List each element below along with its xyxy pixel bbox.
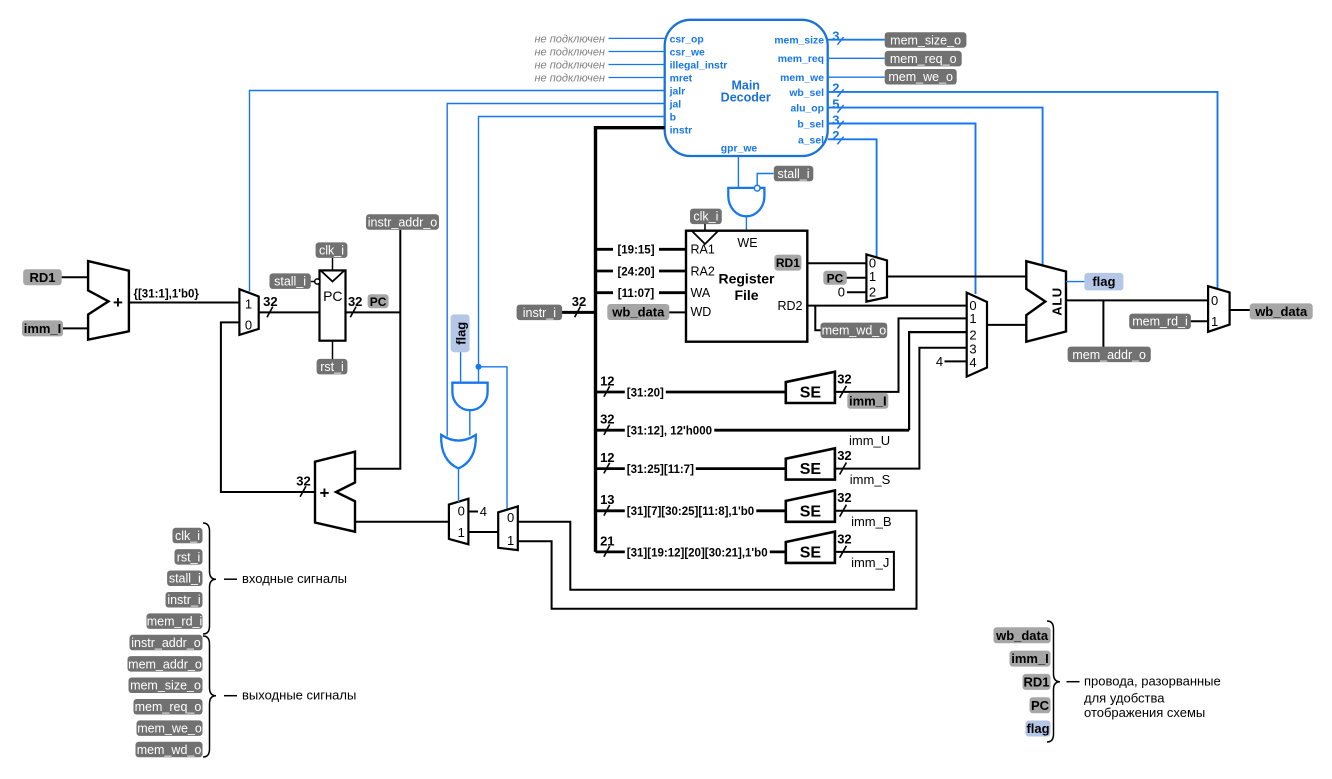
wire adder A2 out to mux M1 (221, 322, 315, 492)
svg-text:clk_i: clk_i (175, 529, 200, 543)
svg-text:не подключен: не подключен (534, 59, 605, 71)
adder A1 jalr target (88, 261, 129, 340)
svg-text:jalr: jalr (669, 87, 686, 98)
svg-text:clk_i: clk_i (319, 244, 344, 258)
legend broken nets dash (1067, 681, 1080, 683)
svg-text:1: 1 (969, 311, 976, 326)
bus width 21 imm_J slice (600, 533, 614, 556)
svg-text:1: 1 (245, 296, 252, 311)
legend input brace (203, 523, 216, 634)
wire constant 4 to b-mux (945, 360, 967, 362)
port mem_wd_o (821, 323, 888, 339)
svg-text:1: 1 (1211, 314, 1218, 329)
mux M3 imm_B/imm_J select (498, 506, 518, 550)
svg-text:4: 4 (936, 354, 943, 369)
port mem_size_o (885, 32, 967, 48)
svg-text:jal: jal (669, 100, 682, 111)
bus width 12 imm_I slice (600, 373, 614, 396)
svg-text:mem_req_o: mem_req_o (890, 52, 957, 66)
wire SE1 out imm_I to b-mux (835, 318, 967, 392)
svg-text:RD1: RD1 (776, 256, 800, 270)
svg-text:mem_addr_o: mem_addr_o (1072, 348, 1146, 362)
svg-text:mem_rd_i: mem_rd_i (1132, 315, 1188, 329)
svg-text:3: 3 (832, 112, 839, 127)
svg-text:wb_data: wb_data (611, 305, 665, 320)
svg-text:WE: WE (737, 236, 757, 250)
net label imm_I at SE1 out (847, 393, 888, 409)
wire mret stub (609, 77, 665, 79)
svg-text:32: 32 (600, 412, 614, 427)
port rst_i at PC (317, 359, 348, 375)
svg-text:stall_i: stall_i (274, 275, 306, 289)
net label RD1 at register-file output (774, 255, 801, 271)
wire b to imm mux select (479, 367, 508, 509)
svg-text:PC: PC (323, 288, 342, 304)
register-file title (718, 270, 775, 303)
wire PC out (346, 311, 401, 313)
svg-text:1: 1 (869, 269, 876, 284)
label slice 31:20 (625, 386, 666, 400)
svg-text:провода, разорванные: провода, разорванные (1084, 674, 1221, 689)
label slice imm_B bits (625, 504, 757, 518)
svg-text:WD: WD (691, 305, 712, 319)
svg-text:instr_addr_o: instr_addr_o (131, 636, 201, 650)
wire a-mux out to ALU (887, 276, 1026, 278)
svg-text:{[31:1],1'b0}: {[31:1],1'b0} (134, 289, 200, 301)
svg-text:illegal_instr: illegal_instr (670, 61, 728, 72)
svg-text:SE: SE (800, 461, 822, 478)
svg-text:RA2: RA2 (691, 264, 715, 278)
wire csr_we stub (609, 51, 665, 53)
sign-extend SE4 imm_J (786, 532, 835, 563)
svg-text:mem_we_o: mem_we_o (888, 70, 953, 84)
wire b-mux out to ALU (987, 324, 1026, 326)
svg-text:b: b (670, 113, 676, 124)
wire illegal_instr stub (609, 64, 665, 66)
mux M2 PC step select (449, 499, 469, 545)
decoder U1 Main Decoder (665, 20, 828, 156)
svg-text:2: 2 (832, 81, 839, 96)
port clk_i at register-file (690, 209, 722, 225)
mux M3 port digits (507, 510, 514, 548)
svg-text:0: 0 (245, 317, 252, 332)
bus width 32 adder A2 out (296, 473, 310, 496)
svg-text:RD1: RD1 (29, 270, 55, 285)
svg-text:instr_addr_o: instr_addr_o (368, 215, 438, 229)
svg-text:imm_S: imm_S (850, 472, 891, 487)
svg-text:PC: PC (370, 295, 387, 309)
net label wb_data at WD (607, 304, 669, 320)
mux M1 port digits (245, 296, 252, 332)
svg-text:4: 4 (969, 355, 976, 370)
svg-text:32: 32 (837, 531, 851, 546)
port mem_we_o (885, 69, 957, 85)
net label wb_data out (1250, 303, 1313, 319)
alu U3 (1026, 261, 1066, 342)
svg-text:не подключен: не подключен (534, 33, 605, 45)
svg-text:wb_data: wb_data (995, 628, 1049, 643)
svg-text:12: 12 (600, 373, 614, 388)
port mem_rd_i (1129, 314, 1191, 330)
wire or-gate G3 out to mux M2 select (458, 468, 460, 502)
svg-text:flag: flag (1026, 721, 1049, 736)
legend output signals labels (130, 635, 203, 651)
svg-text:alu_op: alu_op (791, 104, 825, 115)
mux M5 port digits (969, 298, 976, 370)
wire adder A1 out jalr target (129, 302, 240, 304)
bus width 2 wb_sel (832, 81, 843, 97)
net label flag at ALU (1084, 273, 1123, 291)
wire b_sel net (828, 124, 976, 295)
register PC clock chevron (321, 270, 345, 281)
svg-text:mret: mret (670, 74, 693, 85)
adder A2 PC plus offset (315, 452, 355, 532)
svg-text:[31:25][11:7]: [31:25][11:7] (627, 464, 694, 476)
svg-text:32: 32 (572, 294, 586, 309)
wire instr slice 31:20 to SE1 (596, 391, 786, 394)
bus width 3 b_sel (832, 112, 843, 128)
legend broken nets brace (1047, 621, 1060, 742)
svg-text:0: 0 (1211, 293, 1218, 308)
wire instr_i to bus (562, 311, 595, 314)
mux M6 port digits (1211, 293, 1218, 329)
svg-text:32: 32 (837, 448, 851, 463)
register-file U2 (686, 231, 807, 342)
wire b net (479, 117, 665, 383)
svg-text:mem_we_o: mem_we_o (137, 722, 202, 736)
mux M5 b_sel (967, 293, 987, 377)
svg-text:WA: WA (691, 286, 711, 300)
svg-text:File: File (734, 287, 758, 303)
svg-text:2: 2 (869, 285, 876, 300)
mux M2 port digits (458, 504, 465, 541)
svg-text:+: + (320, 483, 330, 502)
svg-text:stall_i: stall_i (778, 167, 810, 181)
svg-text:mem_req_o: mem_req_o (135, 700, 202, 714)
svg-text:ALU: ALU (1049, 287, 1064, 316)
wire instr slice imm_B to SE3 (596, 509, 786, 512)
wire mem_we net (828, 76, 885, 78)
register-file clock chevron (692, 231, 719, 244)
sign-extend SE2 imm_S (786, 448, 835, 479)
port stall_i at PC (270, 273, 311, 289)
svg-text:mem_size_o: mem_size_o (130, 679, 201, 693)
wire clk_i to register-file (704, 224, 706, 231)
svg-text:imm_J: imm_J (851, 555, 889, 570)
wire RD1 to adder A1 (62, 276, 88, 278)
svg-text:mem_req: mem_req (778, 54, 824, 65)
mux M4 a_sel (866, 254, 887, 301)
net label PC at PC output (368, 294, 389, 309)
wire and-gate G2 out (469, 410, 471, 435)
svg-text:a_sel: a_sel (798, 135, 824, 146)
label slice 31:25 11:7 (625, 462, 696, 476)
svg-text:0: 0 (869, 255, 876, 270)
svg-text:13: 13 (600, 492, 614, 507)
net label imm_I at adder A1 (22, 320, 63, 336)
wire instr slice imm_J to SE4 (596, 551, 786, 554)
svg-text:mem_size: mem_size (774, 36, 824, 47)
wire alu_op net (828, 108, 1043, 267)
inverter bubble on stall_i input (754, 185, 760, 191)
legend input signals labels (173, 528, 203, 544)
port clk_i at PC (316, 242, 348, 258)
wire RD2 to b-mux (807, 305, 966, 307)
svg-text:stall_i: stall_i (169, 572, 201, 586)
svg-text:32: 32 (296, 473, 310, 488)
port instr_i (517, 305, 563, 321)
svg-text:32: 32 (263, 294, 277, 309)
wire rst_i to PC (332, 341, 334, 359)
wire mux M2 out to adder A2 (355, 521, 449, 523)
bus width 32 imm_J out (837, 531, 851, 558)
svg-text:b_sel: b_sel (797, 120, 824, 131)
svg-text:gpr_we: gpr_we (721, 144, 758, 155)
svg-text:[31][7][30:25][11:8],1'b0: [31][7][30:25][11:8],1'b0 (627, 506, 754, 518)
svg-text:mem_we: mem_we (780, 73, 824, 84)
wire pc-mux out to PC (259, 311, 320, 313)
svg-text:wb_data: wb_data (1254, 304, 1308, 319)
wire SE2 out imm_S to b-mux (835, 348, 966, 469)
decoder U1 output pin labels (721, 36, 824, 155)
wire mem_rd_i to wb-mux (1191, 320, 1208, 322)
svg-text:mem_addr_o: mem_addr_o (128, 657, 202, 671)
svg-text:imm_I: imm_I (849, 393, 887, 408)
wire mem_wd_o tap (815, 306, 820, 331)
svg-text:imm_B: imm_B (851, 514, 891, 529)
wire gpr_we net (737, 156, 739, 189)
svg-text:clk_i: clk_i (693, 210, 718, 224)
mux M4 port digits (869, 255, 876, 299)
svg-text:PC: PC (1031, 698, 1050, 713)
svg-text:Decoder: Decoder (721, 91, 771, 105)
svg-text:mem_rd_i: mem_rd_i (147, 615, 203, 629)
sign-extend SE1 imm_I (786, 372, 835, 403)
wire RD1 to a-mux (807, 262, 866, 264)
svg-text:выходные сигналы: выходные сигналы (242, 688, 356, 703)
svg-text:32: 32 (348, 294, 362, 309)
wire wb_data to WD (669, 311, 686, 313)
svg-text:0: 0 (838, 284, 845, 299)
and-gate G1 gpr_we AND not stall_i (728, 188, 764, 216)
svg-text:для удобства: для удобства (1084, 691, 1165, 706)
bus width 2 a_sel (832, 128, 843, 144)
svg-text:instr: instr (670, 126, 693, 137)
sign-extend SE3 imm_B (786, 491, 835, 522)
wire constant 0 to a-mux (847, 291, 866, 293)
inverter bubble stall_i at PC (315, 279, 320, 284)
svg-text:2: 2 (832, 128, 839, 143)
svg-text:32: 32 (837, 371, 851, 386)
register PC (320, 270, 346, 340)
wire alu flag out (1066, 281, 1084, 283)
register-file pin labels (691, 236, 803, 319)
svg-text:rst_i: rst_i (177, 550, 201, 564)
wire SE3 out imm_B to mux M3 (518, 511, 917, 609)
svg-text:instr_i: instr_i (167, 593, 200, 607)
svg-text:входные сигналы: входные сигналы (242, 571, 347, 586)
wire SE4 out imm_J to mux M3 (518, 522, 894, 590)
or-gate G3 pc source (441, 435, 476, 469)
svg-text:instr_i: instr_i (523, 306, 556, 320)
legend text broken wires (1084, 674, 1221, 721)
svg-text:[11:07]: [11:07] (618, 288, 655, 300)
wire PC to a-mux (847, 277, 867, 279)
svg-text:mem_wd_o: mem_wd_o (822, 324, 887, 338)
bus width 32 PC out (348, 294, 362, 317)
wire jal net (447, 104, 665, 437)
wire instr slice 31:25 11:7 to SE2 (596, 467, 786, 470)
wire instr_addr_o and PC feedback to adder (355, 230, 400, 469)
svg-text:flag: flag (453, 322, 468, 345)
wire instr slice 19:15 to RA1 (596, 248, 687, 251)
legend input dash (224, 578, 237, 580)
mux M6 wb_sel (1208, 286, 1230, 332)
svg-text:0: 0 (507, 510, 514, 525)
wire clk_i to PC (332, 258, 334, 271)
bus width 5 alu_op (832, 96, 843, 112)
legend output brace (203, 636, 216, 757)
wire alu result (1066, 299, 1208, 301)
svg-text:SE: SE (800, 503, 822, 520)
wire mem_req net (828, 57, 885, 59)
label slice 31:12 12'h000 (625, 424, 715, 438)
svg-text:4: 4 (480, 504, 487, 519)
bus width 32 instr_i (572, 294, 586, 317)
wire mem_addr_o tap (1102, 300, 1104, 347)
svg-text:1: 1 (458, 525, 465, 540)
node b branch junction (476, 364, 482, 370)
svg-text:не подключен: не подключен (534, 46, 605, 58)
svg-text:imm_I: imm_I (24, 321, 62, 336)
bus instr from decoder (596, 128, 665, 552)
wire stall_i to PC (311, 281, 315, 283)
svg-text:не подключен: не подключен (534, 72, 605, 84)
legend output dash (224, 695, 237, 697)
label slice 24:20 (613, 265, 659, 279)
svg-text:3: 3 (832, 29, 839, 44)
label slice imm_J bits (625, 546, 770, 560)
port mem_addr_o (1068, 347, 1151, 363)
svg-text:csr_we: csr_we (670, 48, 705, 59)
wire imm_I to adder A1 (63, 327, 88, 329)
svg-text:21: 21 (600, 533, 614, 548)
wire instr slice 11:07 to WA (596, 291, 687, 294)
label slice 11:07 (613, 286, 659, 300)
svg-text:RA1: RA1 (691, 243, 715, 257)
port mem_req_o (885, 51, 962, 67)
net label RD1 at adder A1 (23, 269, 62, 285)
svg-text:Register: Register (718, 270, 775, 286)
port stall_i near decoder (774, 166, 814, 182)
svg-text:wb_sel: wb_sel (788, 88, 824, 99)
svg-text:[31:20]: [31:20] (627, 387, 664, 399)
svg-text:0: 0 (458, 504, 465, 519)
bus width 3 mem_size (832, 29, 843, 45)
svg-text:[31:12], 12'h000: [31:12], 12'h000 (627, 426, 712, 438)
svg-text:csr_op: csr_op (670, 34, 704, 45)
svg-text:[24:20]: [24:20] (617, 266, 654, 278)
bus width 32 imm_B out (837, 490, 851, 517)
svg-text:mem_wd_o: mem_wd_o (137, 743, 202, 757)
net label PC at a-mux (823, 271, 846, 286)
decoder U1 title (721, 78, 771, 104)
svg-text:+: + (113, 293, 123, 312)
svg-text:[31][19:12][20][30:21],1'b0: [31][19:12][20][30:21],1'b0 (627, 547, 768, 559)
svg-text:32: 32 (837, 490, 851, 505)
wire csr_op stub (609, 37, 665, 39)
wire mem_size net (828, 39, 885, 41)
svg-text:[19:15]: [19:15] (617, 245, 654, 257)
legend broken nets labels (994, 627, 1051, 643)
mux M1 next PC select (239, 289, 258, 335)
wire WE gate output (745, 216, 747, 230)
bus width 32 PC in (263, 294, 277, 317)
svg-text:5: 5 (832, 96, 839, 111)
wire instr slice 24:20 to RA2 (596, 270, 687, 273)
port instr_addr_o (366, 214, 439, 230)
svg-text:1: 1 (507, 533, 514, 548)
svg-text:mem_size_o: mem_size_o (890, 33, 961, 47)
svg-text:SE: SE (800, 544, 822, 561)
bus width 32 imm_S out (837, 448, 851, 475)
wire instr slice 31:12 imm_U (596, 429, 910, 432)
net label flag rotated (451, 314, 470, 352)
bus width 32 imm_I out (837, 371, 851, 398)
svg-text:PC: PC (827, 271, 844, 285)
svg-text:imm_I: imm_I (1011, 651, 1049, 666)
wire constant 4 to mux M2 (468, 511, 478, 513)
wire stall_i to WE gate (757, 174, 774, 186)
label slice 19:15 (613, 243, 659, 257)
wire a_sel net (828, 139, 877, 257)
bus width 13 imm_B slice (600, 492, 614, 515)
svg-text:SE: SE (800, 385, 822, 402)
svg-text:2: 2 (969, 328, 976, 343)
svg-text:RD1: RD1 (1023, 675, 1049, 690)
wire mux M3 out to mux M2 (468, 531, 498, 533)
svg-text:flag: flag (1092, 274, 1115, 289)
svg-text:rst_i: rst_i (320, 360, 344, 374)
bus width 32 imm_U slice (600, 412, 614, 435)
wire flag to and-gate G2 (460, 352, 462, 383)
decoder U1 input pin labels (669, 34, 728, 136)
and-gate G2 branch taken (452, 383, 487, 411)
bus width 12 imm_S slice (600, 450, 614, 473)
wire wb-mux out wb_data (1230, 309, 1250, 311)
svg-text:imm_U: imm_U (849, 433, 890, 448)
svg-text:отображения схемы: отображения схемы (1084, 705, 1205, 720)
svg-text:RD2: RD2 (777, 299, 802, 313)
wire jalr net (250, 91, 665, 292)
wire wb_sel net (828, 92, 1218, 290)
svg-text:12: 12 (600, 450, 614, 465)
